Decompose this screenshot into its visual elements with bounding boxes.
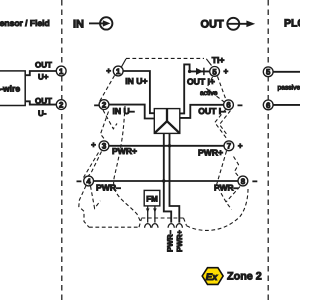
svg-text:+: + [91,141,96,150]
svg-text:IN U+: IN U+ [125,76,147,86]
svg-text:PWR+: PWR+ [175,230,184,252]
svg-text:2: 2 [102,101,107,110]
wire OUT I- from isolator to terminal 6 [180,105,224,118]
svg-text:–: – [94,100,99,109]
svg-text:Ex: Ex [206,272,218,283]
wire PLC 5 [273,71,300,73]
svg-text:–: – [238,101,243,110]
svg-text:U+: U+ [38,73,49,82]
diode D1 [196,68,204,75]
wire IN U- from terminal 2 to isolator [109,105,154,119]
terminal circle 1 left [56,66,66,76]
wire PWR- row from terminal 4 to terminal 8 [93,180,238,182]
svg-text:U-: U- [38,109,47,118]
svg-text:–: – [253,177,258,186]
terminal circle 2 module (IN U-) [99,100,109,110]
node right separator dashed line [267,0,269,300]
svg-text:PWR–: PWR– [165,230,174,252]
svg-text:OUT I–: OUT I– [198,106,226,116]
svg-text:FM: FM [146,194,158,203]
wire diode to terminal 5 [190,70,210,72]
svg-text:7: 7 [227,142,231,151]
svg-text:PWR–: PWR– [96,183,121,193]
svg-text:OUT: OUT [201,19,225,31]
svg-text:PWR+: PWR+ [198,148,223,158]
terminal circle 3 module (PWR+) [99,141,109,151]
component isolation amplifier [154,109,180,134]
svg-text:OUT: OUT [35,96,52,105]
wire PLC 6 [273,104,300,106]
svg-text:OUT: OUT [35,60,52,69]
svg-text:+: + [106,66,111,75]
svg-text:1: 1 [116,67,121,76]
wire TI+ dashed test line [122,59,127,67]
component FM fault monitoring box [144,190,160,206]
node junction dot PWR+ [168,144,171,147]
svg-text:IN: IN [73,18,84,30]
wire FM output right with arrow [153,206,157,223]
svg-text:1: 1 [59,67,64,76]
svg-text:active: active [200,90,218,97]
wire IN U+ from terminal 1 to isolator [123,71,154,113]
svg-text:OUT I+: OUT I+ [187,77,215,87]
wire dashed harness output side [207,77,241,210]
node left separator dashed line [61,0,63,300]
svg-text:IN U–: IN U– [113,106,135,116]
svg-text:6: 6 [266,101,271,110]
component sensor box (4-wire transducer) [0,71,25,106]
wire sensor OUT U- to terminal 2 [25,101,56,104]
terminal circle 6 right (PLC) [263,100,273,110]
wire OUT I+ from isolator to diode junction [180,64,190,113]
wire sensor OUT U+ to terminal 1 [25,71,56,75]
node OUT icon [227,18,255,30]
svg-text:4: 4 [86,177,91,186]
node bus socket bells [145,224,183,228]
wire DIN rail bus dashed [89,189,248,230]
svg-text:6: 6 [226,101,231,110]
svg-text:3: 3 [102,142,107,151]
svg-text:2: 2 [59,101,64,110]
terminal circle 6 module (OUT I-) [224,100,234,110]
terminal circle 5 module (OUT I+) [210,67,220,77]
svg-text:Sensor / Field: Sensor / Field [0,18,50,28]
svg-text:5: 5 [266,68,271,77]
svg-text:passive: passive [278,85,301,92]
svg-text:–: – [77,176,82,185]
svg-text:8: 8 [241,177,246,186]
node Ex Zone 2 marking [202,268,262,285]
svg-text:PLC/DCS: PLC/DCS [284,17,300,29]
svg-text:PWR+: PWR+ [112,146,137,156]
terminal circle 1 module (IN U+) [113,66,123,76]
svg-text:Zone 2: Zone 2 [227,271,262,283]
terminal circle 7 (PWR+) [224,141,234,151]
wire PWR+ row from terminal 3 to terminal 7 [109,145,224,147]
node junction dot OUT I+ [188,70,191,73]
node IN icon [89,17,112,29]
svg-text:PWR–: PWR– [214,182,239,192]
svg-text:+: + [223,67,228,76]
terminal circle 8 (PWR-) [238,176,248,186]
wire FM output left with arrow [146,206,150,223]
node junction dot PWR- [162,179,165,182]
wire dashed harness input pair [79,76,141,228]
svg-text:TI+: TI+ [212,55,225,65]
svg-text:+: + [238,142,243,151]
terminal circle 4 module (PWR-) [84,176,94,186]
wire module power feed PWR+ (right vertical) [170,133,180,222]
svg-text:5: 5 [212,67,217,76]
terminal circle 5 right (PLC) [263,67,273,77]
terminal circle 2 left [56,100,66,110]
wire module power feed PWR- (left vertical) [164,133,171,222]
svg-text:4-wire: 4-wire [0,83,20,93]
